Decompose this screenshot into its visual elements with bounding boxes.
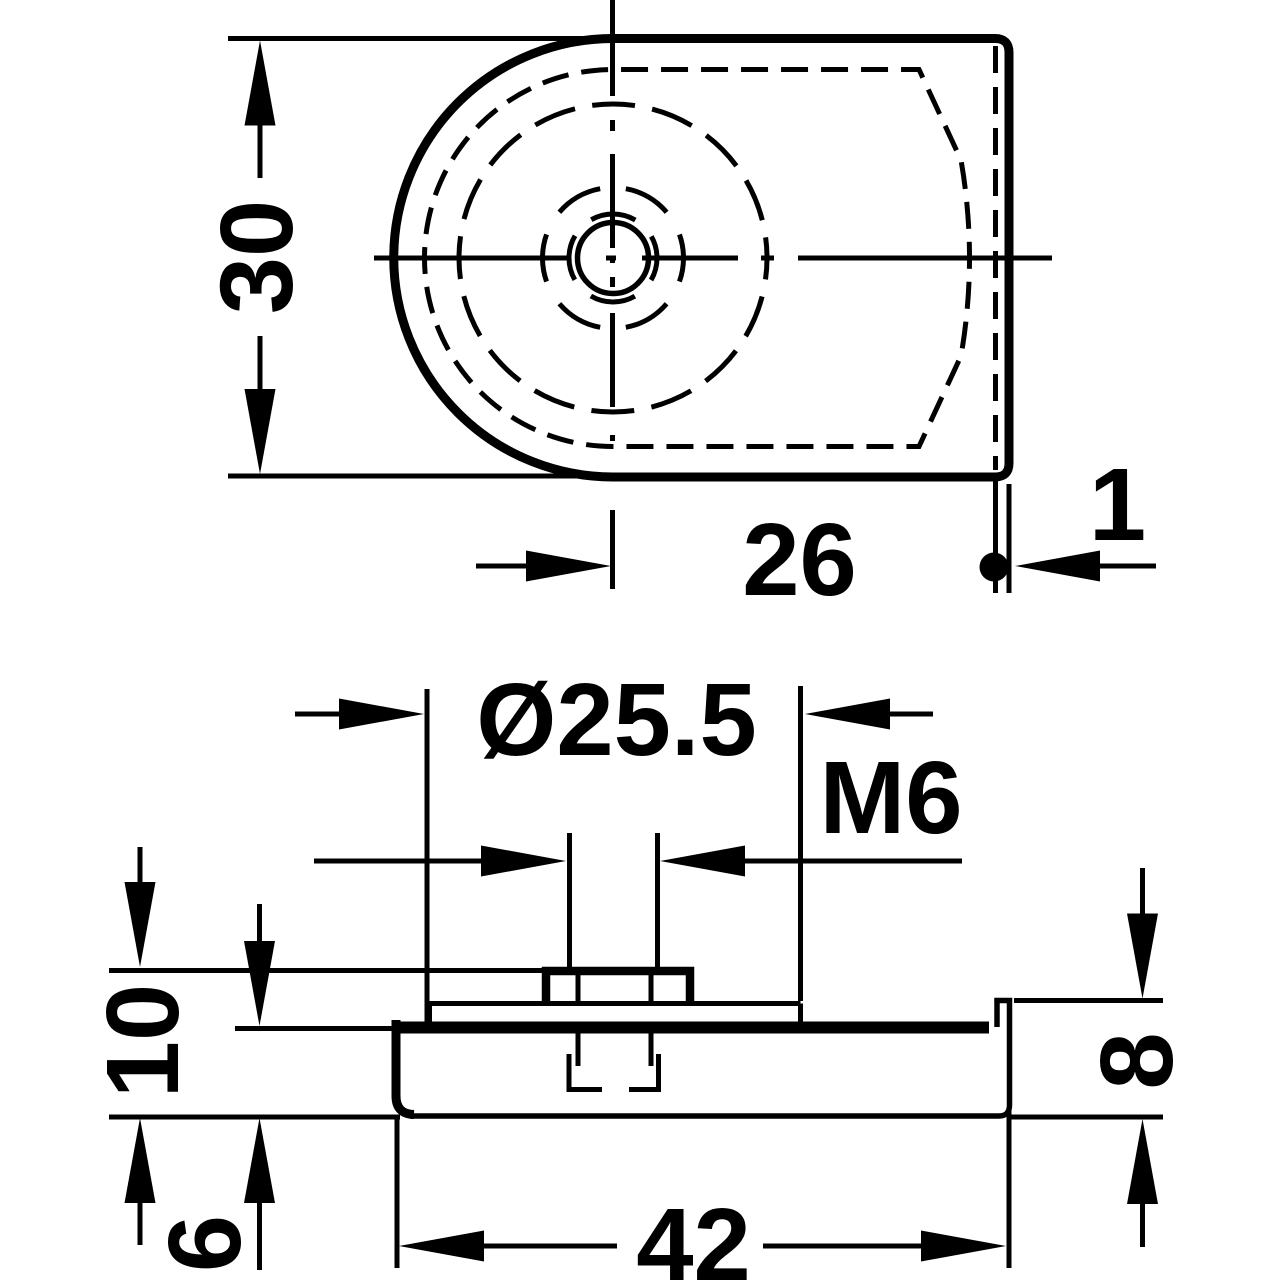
dim 26/1 origin dot [980, 553, 1009, 582]
thread circle M6 major (dashed) [569, 214, 657, 302]
dim 30 top extension line [228, 36, 618, 41]
dim 42 line right [763, 1244, 925, 1249]
dim 6 top extension line [235, 1026, 397, 1031]
thread hole minor left [576, 1032, 581, 1066]
dim 30 lower arrow [245, 389, 276, 474]
vertical centerline [610, 0, 615, 589]
extension of hidden edge below part [993, 475, 998, 593]
dim 42 line left [480, 1244, 617, 1249]
bottom extension line left [109, 1115, 400, 1120]
dim 42 left arrow [399, 1231, 484, 1262]
svg-text:10: 10 [85, 984, 200, 1099]
dim 8 bottom arrow [1127, 1119, 1158, 1204]
svg-text:1: 1 [1089, 447, 1146, 562]
dim 10 bottom arrow [125, 1118, 156, 1203]
dim d25.5 left arrow [339, 699, 424, 730]
stud hat (thick) [546, 971, 690, 1003]
dim 10 top extension line [109, 968, 546, 973]
dim 30 line upper segment [258, 122, 263, 178]
dim 6 line upper [257, 904, 262, 945]
dim 26 line [476, 564, 530, 569]
dim 42 left extension line [395, 1117, 400, 1268]
boss d25.5 top line [430, 1001, 801, 1006]
dim 10 top arrow [125, 882, 156, 967]
top view body outline [394, 39, 1009, 478]
thread hole major left bracket [569, 1054, 602, 1090]
dim d25.5 right extension line [798, 686, 803, 1001]
dim 6 line lower [257, 1199, 262, 1270]
bottom extension line right [1009, 1115, 1163, 1120]
dim 30 line lower segment [258, 336, 263, 392]
svg-text:30: 30 [199, 200, 314, 315]
svg-text:8: 8 [1079, 1032, 1194, 1089]
disc left edge (thick) [396, 1020, 414, 1115]
dim 42 right extension line [1007, 1110, 1012, 1268]
dim M6 left line [314, 859, 485, 864]
svg-text:M6: M6 [819, 740, 962, 855]
dim 1 arrow [1015, 551, 1100, 582]
dim M6 right line [741, 859, 962, 864]
dim 10 line lower [138, 1199, 143, 1245]
dim 8 top extension line [1014, 998, 1163, 1003]
hidden edge line near right edge [993, 46, 998, 470]
dim 10 line upper [138, 847, 143, 886]
dim d25.5 right arrow [805, 699, 890, 730]
hidden contour (dashed D-shape) [425, 70, 970, 447]
thread hole minor right [649, 1032, 654, 1066]
extension of right edge below part [1007, 484, 1012, 593]
thread hole major right bracket [629, 1054, 659, 1090]
svg-text:Ø25.5: Ø25.5 [476, 662, 757, 777]
disc top surface (thick) [392, 1022, 989, 1034]
dim 30 bottom extension line [228, 474, 618, 479]
hidden circle d21 [459, 104, 767, 412]
dim 8 line lower [1140, 1200, 1145, 1247]
dim M6 left arrow [481, 846, 566, 877]
dim 8 top arrow [1127, 914, 1158, 999]
dim 6 top arrow [244, 941, 275, 1026]
dim 30 upper arrow [245, 41, 276, 126]
dim 26 arrow [526, 551, 611, 582]
dim M6 left extension line [567, 833, 572, 967]
dim 6 bottom arrow [244, 1118, 275, 1203]
dim 8 line upper [1140, 868, 1145, 917]
svg-text:6: 6 [147, 1215, 262, 1272]
hole circle (solid) [578, 223, 649, 294]
stud shank right line [649, 974, 654, 1001]
boss right edge [798, 1004, 803, 1024]
dim M6 right arrow [660, 846, 745, 877]
svg-text:42: 42 [636, 1187, 751, 1280]
dim d25.5 right line [886, 712, 933, 717]
dim d25.5 left line [295, 712, 345, 717]
boss left edge [427, 1004, 432, 1024]
hidden circle d10 [543, 188, 684, 329]
dim 42 right arrow [921, 1231, 1006, 1262]
dim 1 line [1100, 564, 1156, 569]
disc body outline (thin part: bottom, right, lip) [410, 1001, 1010, 1117]
dim d25.5 left extension line [425, 689, 430, 1022]
svg-text:26: 26 [742, 502, 857, 617]
horizontal centerline [374, 256, 1052, 261]
stud shank left line [576, 974, 581, 1001]
dim M6 right extension line [655, 833, 660, 967]
